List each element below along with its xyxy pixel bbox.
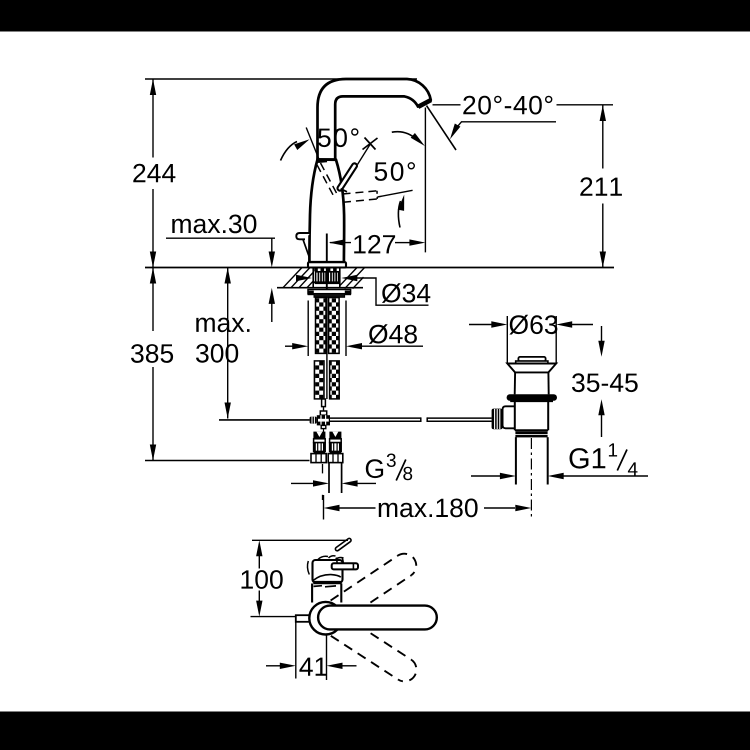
label Ø63 xyxy=(509,315,557,335)
bottom letterbox bar xyxy=(0,712,750,750)
G1 1/4 dimension arrows xyxy=(471,475,501,477)
counter hatching right block xyxy=(340,268,365,289)
counter bottom line xyxy=(277,287,363,289)
max.30 underline xyxy=(166,237,275,239)
20-40 horizontal line right piece xyxy=(557,104,614,106)
drain knurled adjuster knob xyxy=(492,409,503,430)
mounting nut xyxy=(314,294,345,298)
center line dash below tube xyxy=(322,495,324,500)
dimension 385 vertical line xyxy=(152,268,154,332)
G3/8 dimension arrows xyxy=(291,482,314,484)
Ø34 dimension arrows xyxy=(296,275,312,281)
max.30 arrow to counter top xyxy=(271,238,273,252)
Ø63 extension lines xyxy=(506,316,508,363)
faucet body (goblet) xyxy=(309,160,344,263)
lever axis thin line to pivot cross xyxy=(358,145,371,165)
dimension max.180 xyxy=(323,495,325,520)
base flange on counter xyxy=(308,262,346,267)
lever tip rod (top view) xyxy=(335,538,352,552)
shank cross line xyxy=(314,281,340,283)
drain flange xyxy=(507,364,556,373)
curved arrow for upper 50 degrees xyxy=(281,142,298,161)
Ø48 extension lines xyxy=(307,301,309,357)
pop-up rod adjuster sleeve xyxy=(322,399,326,407)
dimension 41 ticks xyxy=(295,617,297,679)
drain retaining ring xyxy=(515,431,547,434)
top extension line (spout height ref) xyxy=(145,78,417,80)
Ø34 leader line xyxy=(357,278,429,305)
label max.30 xyxy=(172,215,256,234)
label 50 degrees (upper) xyxy=(318,128,358,147)
counter top line xyxy=(145,267,614,269)
label 50 degrees (lower) xyxy=(375,162,415,181)
left hose center line xyxy=(322,464,324,473)
spout capsule (top view) xyxy=(318,606,437,630)
drain tailpipe xyxy=(515,437,517,484)
drain neck xyxy=(514,372,516,394)
label 385 xyxy=(131,344,173,363)
housing seam marks xyxy=(314,585,323,588)
dimension 35-45 arrows xyxy=(601,326,603,342)
20-40 horizontal line left piece xyxy=(433,104,461,106)
swivel range dashed capsule upper xyxy=(331,554,417,621)
top reference line (lever tip) xyxy=(252,539,348,541)
label 244 xyxy=(133,164,175,183)
supply tube below right connector xyxy=(328,463,330,493)
spout angle diagonal line xyxy=(427,106,457,150)
drain center line xyxy=(530,438,532,519)
385 bottom reference line xyxy=(145,460,310,462)
50 degree reference line (lower) xyxy=(378,190,413,197)
spout tube outline xyxy=(318,79,431,160)
drain O-ring seal xyxy=(507,394,557,401)
lever base notch xyxy=(341,189,347,192)
dimension 41 arrows xyxy=(266,665,281,667)
dimension 127 xyxy=(330,242,351,244)
20-40 leader with arrow xyxy=(456,122,462,128)
joint seam thick mark xyxy=(318,159,327,163)
horseshoe washer xyxy=(308,290,351,294)
cartridge dashed lines inside body xyxy=(321,163,337,193)
faucet body circle (top view) xyxy=(309,602,342,635)
Ø63 dimension arrows xyxy=(469,324,492,326)
pop-up rod through body xyxy=(326,234,328,298)
pop-up rod knob arm (left of body) xyxy=(296,233,310,239)
clevis left knurled stub xyxy=(310,417,317,424)
drain body xyxy=(510,400,553,402)
label G 3/8 xyxy=(366,459,383,478)
label 211 xyxy=(580,177,622,196)
flexible hoses upper section xyxy=(316,297,327,353)
right G3/8 connector xyxy=(328,432,343,463)
threaded rod left in hole xyxy=(316,272,326,284)
label max. xyxy=(196,318,249,333)
label 41 xyxy=(299,658,327,676)
cartridge housing (top view) xyxy=(313,560,343,583)
top letterbox bar xyxy=(0,0,750,32)
housing left crescent xyxy=(307,561,309,575)
dimension 100 vertical line xyxy=(258,555,260,568)
50 degree reference line (upper left) xyxy=(306,128,319,161)
drain plug dome xyxy=(518,357,545,361)
counter hatching left block xyxy=(283,268,313,288)
pop-up rod stub (top view) xyxy=(296,615,310,622)
left G3/8 connector xyxy=(311,432,326,463)
Ø48 dimension arrows xyxy=(285,345,299,347)
shank top dashed band xyxy=(314,268,339,271)
lever neck curls xyxy=(318,556,328,559)
bottom reference line (spout axis) xyxy=(251,616,296,618)
drain rod socket xyxy=(503,406,515,428)
joint line on riser xyxy=(318,159,337,161)
housing neck to body xyxy=(311,584,313,603)
curved arrow for lower 50 degrees xyxy=(398,201,400,228)
dimension max.300 vertical line xyxy=(227,268,229,419)
rod clevis block xyxy=(317,415,330,425)
pop-up horizontal rod left tail xyxy=(219,419,310,421)
threaded rod right in hole xyxy=(328,272,338,284)
max.30 arrow to counter bottom xyxy=(271,303,273,322)
spout tip vertical extension line xyxy=(424,108,426,253)
dashed lever alternate position xyxy=(343,191,378,194)
spout swivel curved arrow xyxy=(392,132,418,140)
spout nozzle cut face xyxy=(418,100,431,107)
label 35-45 xyxy=(572,373,638,392)
label 300 xyxy=(196,344,238,363)
label G1 1/4 xyxy=(570,448,606,469)
pop-up rod between hoses xyxy=(326,297,328,399)
housing dome arc xyxy=(313,575,341,581)
dimension 211 vertical line xyxy=(602,105,604,169)
handle lever xyxy=(337,163,358,192)
flexible hoses lower section xyxy=(314,361,324,399)
label 100 xyxy=(242,570,283,589)
clevis lower stub xyxy=(321,425,326,428)
pop-up horizontal rod right section xyxy=(330,417,421,419)
swivel range dashed capsule lower xyxy=(331,616,417,682)
dimension 244 vertical line xyxy=(152,79,154,158)
label 20-40 degrees xyxy=(463,96,552,115)
lever grip (top view) xyxy=(332,563,358,569)
label Ø48 xyxy=(369,324,417,344)
20-40 underline xyxy=(461,121,556,123)
rod clevis small tube xyxy=(320,411,326,415)
label Ø34 xyxy=(382,283,430,303)
mounting hole edges in counter xyxy=(312,268,314,288)
pivot cross marker xyxy=(363,138,378,150)
